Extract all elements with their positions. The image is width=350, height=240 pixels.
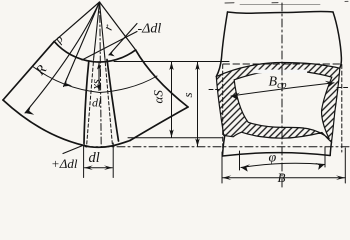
- neutral line arc: [33, 66, 157, 92]
- svg-text:xs: xs: [89, 79, 103, 91]
- B extension line left: [221, 152, 223, 183]
- faint top extension remnant: [240, 4, 320, 6]
- alpha-s dimension line: [171, 62, 173, 138]
- phi dimension arc: [241, 163, 325, 167]
- hatched section band: [216, 63, 339, 143]
- s dimension line: [197, 62, 199, 147]
- bottom edge: [223, 153, 331, 156]
- center dash-dot line: [100, 2, 102, 147]
- svg-text:Bcp: Bcp: [269, 75, 287, 92]
- plus delta dl leader: [63, 145, 85, 154]
- inner arc: [54, 41, 135, 62]
- top extension line: [114, 61, 229, 63]
- svg-text:B: B: [278, 170, 286, 185]
- bottom extension line alpha-s: [128, 137, 222, 139]
- svg-text:dl: dl: [89, 150, 100, 166]
- R dimension line: [25, 2, 100, 113]
- right edge lower: [330, 142, 331, 156]
- right edge upper: [333, 12, 341, 68]
- svg-text:s: s: [180, 92, 195, 97]
- radial line to inner arc left end: [54, 2, 99, 41]
- dashed original top right segment: [337, 87, 350, 89]
- wedge right edge: [107, 60, 119, 142]
- dashed original width line right: [341, 65, 343, 153]
- scan speck marks: [225, 2, 234, 4]
- dashed element line right: [105, 57, 113, 146]
- dl bottom dimension extension left: [83, 145, 85, 178]
- xs thickness double arrow: [98, 63, 100, 91]
- right taper bottom edge: [130, 107, 188, 141]
- top edge: [228, 11, 334, 13]
- dashed original top left segment: [209, 89, 222, 91]
- left edge lower: [223, 135, 225, 156]
- minus delta dl leader with arrow: [109, 24, 137, 56]
- phi extension line right: [324, 147, 326, 167]
- dashed element line left: [87, 57, 94, 147]
- dashed original width line left: [222, 65, 224, 153]
- dashed original top surface line: [223, 63, 342, 65]
- B extension line right: [344, 148, 346, 183]
- dl bottom dimension line: [85, 167, 113, 169]
- svg-text:φ: φ: [269, 151, 277, 166]
- svg-text:αS: αS: [151, 90, 166, 104]
- svg-text:+Δdl: +Δdl: [51, 156, 78, 171]
- phi extension line left: [239, 151, 241, 170]
- Bcp dimension line: [231, 83, 334, 96]
- svg-text:dl: dl: [92, 96, 102, 110]
- fan line to dashed right: [100, 2, 105, 57]
- wedge left edge: [84, 61, 89, 144]
- vertical center dash-dot of section: [281, 3, 283, 187]
- svg-text:-Δdl: -Δdl: [138, 22, 162, 37]
- dl bottom dimension extension right: [112, 143, 114, 178]
- rho dimension line: [64, 2, 100, 87]
- minus delta dl second leader: [82, 32, 137, 61]
- horizontal axis dash-dot: [85, 146, 350, 148]
- left edge upper: [216, 12, 227, 77]
- label zone gap: [253, 70, 307, 74]
- radial line to inner arc right end: [100, 2, 136, 50]
- right taper top edge: [136, 50, 188, 107]
- left cut edge: [3, 41, 54, 100]
- outer arc: [3, 100, 130, 147]
- B dimension line: [222, 177, 345, 179]
- fan line to dashed left: [94, 2, 100, 57]
